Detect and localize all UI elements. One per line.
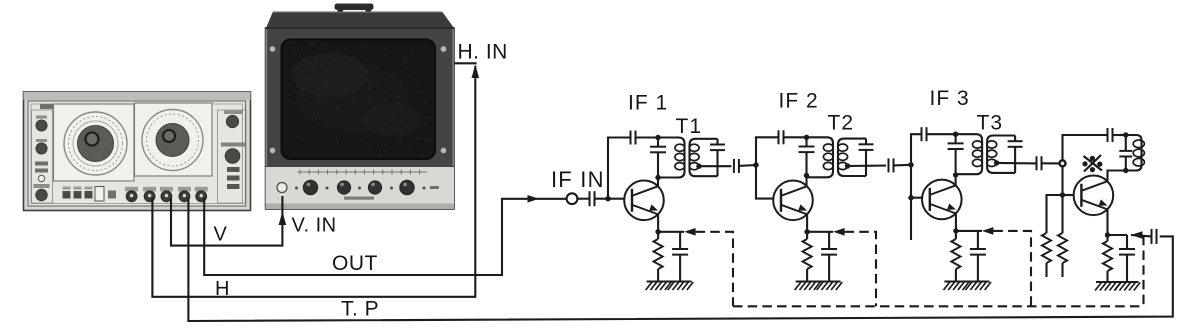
sweep generator right controls [218,110,247,203]
capacitor C34 (stage3-4 coupling) [1037,156,1060,170]
dashed wire stage 3 test point [993,231,1031,306]
svg-text:T2: T2 [828,112,855,135]
transistor Q1 [624,181,664,221]
wire stage 3 bias stub [910,198,912,240]
wire stage 1 top [636,136,659,138]
stub H.IN [454,62,477,64]
sweep generator dial 1 [54,104,135,181]
capacitor stage 1 tank tuning [650,138,666,178]
dashed wire stage 4 test point drop [1142,236,1144,306]
resistor R1 (emitter) [654,232,663,282]
transformer T3 [956,134,1023,174]
label H [215,278,230,300]
ground stage 4 emitter capacitor [1115,282,1141,291]
wire stage 1 feedback riser [608,138,631,199]
arrowhead stage 3 test point [982,227,994,235]
inductor L4 (detector coil) [1126,135,1145,171]
wire stage 4 collector [1108,171,1126,182]
dashed T.P bus [733,305,1144,307]
transistor Q3 [922,180,962,220]
resistor R2 (emitter) [803,232,812,282]
capacitor stage 4 feedback [1108,128,1113,142]
capacitor stage 4 tank tuning [1119,135,1132,171]
sweep generator output connectors [125,187,208,202]
capacitor stage 2 emitter bypass [807,232,837,282]
wire stage 2 top [784,136,807,138]
ground stage 2 emitter resistor [795,282,821,291]
sweep generator bottom buttons [63,187,117,202]
svg-text:V: V [214,224,228,246]
ground stage 1 emitter capacitor [668,282,694,291]
node stage 1 tank top [655,135,660,140]
node T1 secondary tap [696,164,701,169]
transistor Q4 [1074,176,1114,216]
arrowhead H.IN [472,65,480,79]
wire stage 2 base drop [756,165,773,199]
wire H (generator to scope H.IN) [152,66,475,297]
oscilloscope cabinet [266,28,455,209]
svg-text:IF 3: IF 3 [930,87,970,110]
sweep generator dial 2 [135,103,213,176]
terminal stage 4 input [1060,160,1066,166]
resistor R3 (emitter) [951,231,960,282]
wire stage 3 base drop [908,165,922,201]
node stage 4 tank top [1123,132,1128,137]
wire stage 4 feedback riser [1063,135,1108,160]
wire stage 3 feedback riser [911,134,922,165]
capacitor C23 (stage2-3 coupling) [889,158,912,172]
dashed wire stage 1 test point [696,232,733,306]
wire stage 4 top [1113,134,1126,136]
wire stage 3 emitter [953,214,958,234]
wire stage 4 emitter [1105,209,1110,237]
label IF 2 [779,90,819,113]
node stage 4 tank bottom [1123,168,1128,173]
capacitor stage 3 feedback [922,127,927,141]
resistor R4b (bias) [1058,195,1067,277]
symbol reference mark [1082,155,1102,172]
sweep generator title strip [40,104,178,109]
node stage 1 collector junction [655,175,660,180]
label T.P [341,298,379,321]
label IF 1 [628,92,668,115]
transistor Q2 [773,181,813,221]
wire stage 1 collector [657,178,659,187]
arrowhead stage 4 test point [1131,231,1143,239]
capacitor C12 (stage1-2 coupling) [734,159,756,173]
terminal IF IN [567,193,578,204]
sweep generator left controls [32,110,53,203]
resistor R4a (bias) [1042,195,1063,277]
arrowhead OUT [528,195,540,203]
node stage 2 collector junction [804,173,809,178]
capacitor stage 3 emitter bypass [956,231,986,282]
svg-text:H: H [215,278,230,300]
wire T.P (generator along bottom to last stage) [188,198,1172,321]
capacitor C1 (input coupling) [577,191,624,206]
wire stage 4 test point [1131,235,1151,236]
node stage 2 tank top [804,135,809,140]
node stage 1 base [605,196,610,201]
label V. IN [292,215,337,237]
wire stage 4 base drop [1060,166,1074,197]
oscilloscope front panel controls [277,170,439,200]
arrowhead stage 1 test point [684,228,696,236]
node stage 3 tank top [953,132,958,137]
ground stage 4 emitter resistor [1095,282,1121,291]
wire T1 tap output [699,165,731,167]
svg-text:IF IN: IF IN [551,167,605,192]
label H. IN [458,41,508,64]
wire stage 2 collector [805,176,807,187]
oscilloscope handle [335,4,374,15]
wire V (generator to scope V.IN) [171,196,282,246]
node stage 3 input [908,162,913,167]
label T3 [977,112,1004,135]
transformer T2 [807,137,874,177]
svg-text:T3: T3 [977,112,1004,135]
label IF IN [551,167,605,192]
wire stage 3 top [927,133,956,135]
capacitor stage 3 tank tuning [948,134,964,175]
wire T3 tap output [997,162,1037,165]
wire stage 2 emitter [804,214,809,234]
node T3 secondary tap [994,160,999,165]
arrowhead V.IN [279,212,287,226]
svg-text:OUT: OUT [332,252,378,275]
node stage 3 collector junction [953,172,958,177]
node T2 secondary tap [845,163,850,168]
ground stage 3 emitter capacitor [966,282,992,291]
wire T2 tap output [848,165,887,167]
capacitor stage 2 feedback [779,130,784,144]
transformer T1 [658,138,725,178]
label T1 [676,115,703,138]
svg-text:H. IN: H. IN [458,41,508,64]
capacitor stage 1 emitter bypass [658,232,688,282]
oscilloscope bezel screws [269,46,446,154]
oscilloscope screen [282,40,436,160]
label T2 [828,112,855,135]
svg-text:T1: T1 [676,115,703,138]
resistor R4e (emitter) [1103,235,1112,282]
svg-text:IF 1: IF 1 [628,92,668,115]
node stage 2 input [753,162,758,167]
label IF 3 [930,87,970,110]
ground stage 2 emitter capacitor [817,282,843,291]
label V [214,224,228,246]
dashed wire stage 2 test point [845,232,876,306]
svg-text:V. IN: V. IN [292,215,337,237]
capacitor C-TP (output to T.P) [1152,229,1157,244]
label OUT [332,252,378,275]
wire stage 1 emitter [655,214,660,234]
svg-text:T. P: T. P [341,298,379,321]
oscilloscope top lid [266,12,454,29]
ground stage 3 emitter resistor [944,282,970,291]
wire OUT (generator to IF IN) [204,198,567,275]
ground stage 1 emitter resistor [646,282,672,291]
wire stage 2 feedback riser [756,137,779,165]
capacitor stage 2 tank tuning [799,137,815,175]
capacitor stage 4 emitter bypass [1108,235,1136,282]
sweep generator case [24,92,251,211]
wire stage 3 collector [955,175,957,186]
arrowhead stage 2 test point [833,228,845,236]
capacitor stage 1 feedback [631,131,636,145]
svg-text:IF 2: IF 2 [779,90,819,113]
